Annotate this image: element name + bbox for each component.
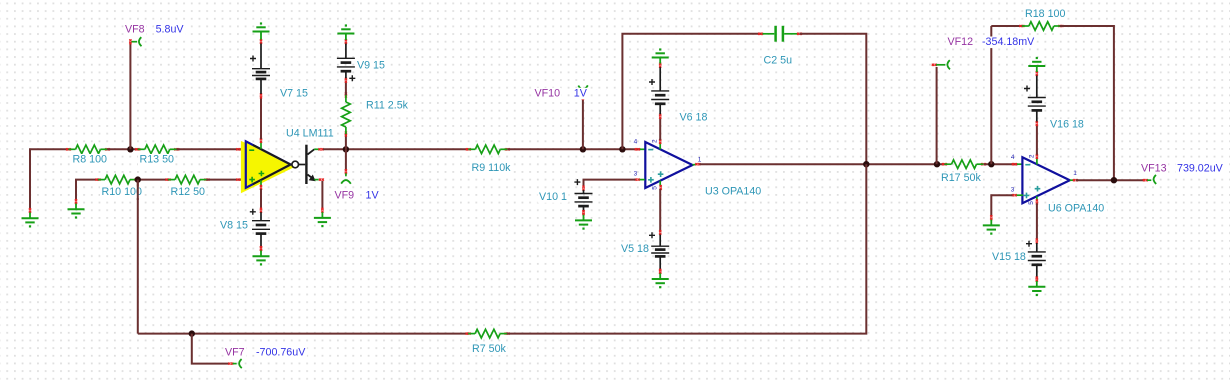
wire junction to R11 [345,133,347,149]
svg-text:U6 OPA140: U6 OPA140 [1048,202,1104,214]
wire U6 V- pin to V15 [1036,203,1038,240]
voltage pin VF9 [341,169,351,184]
svg-text:VF8: VF8 [125,24,145,36]
svg-text:R18 100: R18 100 [1025,8,1065,20]
wire input node to R8 and down to ground [30,149,69,208]
battery V6 [649,63,669,119]
voltage pin VF10 [578,85,588,100]
battery V10 [574,179,592,215]
wire U3 non-inverting input to V10 [635,179,637,181]
svg-text:VF9: VF9 [335,190,355,202]
svg-text:C2 5u: C2 5u [764,55,793,67]
wire R10 to R12 (feedback node) [136,179,169,181]
svg-text:R13 50: R13 50 [140,154,175,166]
wire feedback node down [137,180,139,334]
svg-text:1: 1 [698,157,702,164]
ground [652,269,669,289]
node C2 branch junction [619,146,625,152]
svg-text:U4 LM111: U4 LM111 [286,128,334,140]
wire feedback bottom right [507,164,866,333]
wire U6 V+ pin to V16 [1036,125,1038,155]
capacitor C2 [758,26,802,42]
op-amp U3 OPA140 [634,139,702,190]
node VF8 junction [127,146,133,152]
node VF7 junction [189,330,195,336]
svg-text:3: 3 [1011,187,1015,194]
svg-text:U3 OPA140: U3 OPA140 [705,185,761,197]
resistor R11 [342,93,351,137]
wire U4 emitter to ground [321,181,323,209]
wire U4 collector to R9 [323,148,468,150]
comparator U4 LM111 [241,138,324,194]
svg-text:R9 110k: R9 110k [472,162,512,174]
op-amp U6 OPA140 [1011,154,1078,205]
wire U6 output [1076,179,1144,181]
wire VF12 stub [936,67,938,164]
svg-text:5: 5 [651,186,658,190]
wire feedback bottom left [138,333,469,335]
resistor R12 [166,175,210,184]
wire R11 to V9 [345,81,347,95]
node feedback tie junction [863,161,869,167]
resistor R18 [1019,22,1063,31]
node VF10 junction [580,146,586,152]
voltage pin VF13 [1143,175,1156,184]
wire R12 to U4 non-inverting input [207,179,241,181]
wire R13 to U4 inverting input [177,148,241,150]
wire VF8 stub [129,42,131,149]
svg-text:1: 1 [1073,170,1077,177]
wire U4 V- pin to V8 [260,189,262,209]
resistor R7 [466,329,510,338]
wire VF7 stub [192,334,229,364]
svg-text:739.02uV: 739.02uV [1177,162,1224,174]
svg-text:R8 100: R8 100 [73,154,108,166]
svg-text:V7 15: V7 15 [280,87,308,99]
svg-text:R7 50k: R7 50k [472,343,507,355]
node R18 branch junction [988,161,994,167]
ground [337,24,354,40]
wire capacitor to output node [800,34,867,164]
svg-text:VF12: VF12 [948,36,974,48]
ground [22,208,39,228]
resistor R10 [96,175,140,184]
ground [1028,277,1045,297]
wire R18 branch up [990,26,992,164]
node U4 output junction [343,146,349,152]
wire U3 V- pin to V5 [659,189,661,232]
voltage pin VF12 [932,60,950,69]
wire U3 output to R17 [700,163,945,165]
ground [575,210,592,230]
battery V5 [649,230,669,274]
wire VF10 stub [582,99,584,150]
wire to R18 [991,25,1023,27]
ground [253,246,270,266]
ground [68,199,85,218]
svg-text:VF13: VF13 [1141,162,1167,174]
svg-text:-700.76uV: -700.76uV [256,347,306,359]
wire VF9 stub [345,149,347,171]
svg-text:V15 18: V15 18 [992,251,1026,263]
wire feedback node down (over label) [137,182,139,200]
voltage pin VF8 [129,37,141,46]
wire U6 non-inverting input to ground [1012,194,1014,196]
svg-text:VF7: VF7 [225,347,245,359]
svg-text:2: 2 [652,139,659,143]
ground [1028,57,1045,72]
svg-text:1V: 1V [574,88,588,100]
ground [314,208,331,228]
svg-text:2: 2 [1028,154,1035,158]
wire R18 to output riser [1060,26,1114,180]
wire R8 to R13 (node VF8) [107,148,138,150]
svg-text:R10 100: R10 100 [102,186,142,198]
node feedback junction [135,176,141,182]
svg-text:VF10: VF10 [535,88,561,100]
svg-text:V10 1: V10 1 [539,191,567,203]
svg-text:R17 50k: R17 50k [941,172,981,184]
ground [253,22,270,39]
svg-text:V5 18: V5 18 [621,243,649,255]
wire R17 to U6 inverting input [984,163,1018,165]
wire U3 V+ pin to V6 [659,118,661,141]
resistor R17 [942,160,986,169]
node VF12 junction [934,161,940,167]
svg-text:R11 2.5k: R11 2.5k [366,100,409,112]
resistor R9 [466,145,510,154]
resistor R8 [66,145,110,154]
svg-text:V6 18: V6 18 [680,111,708,123]
svg-text:4: 4 [1011,154,1015,161]
battery V15 [1026,239,1046,282]
svg-text:4: 4 [634,139,638,146]
svg-text:5: 5 [1028,201,1035,205]
battery V8 [250,208,270,251]
voltage pin VF7 [228,359,242,368]
svg-text:3: 3 [634,170,638,177]
wire U4 V+ pin to V7 [260,97,262,139]
ground [983,215,1000,235]
ground [652,48,669,63]
battery V16 [1024,71,1046,126]
svg-text:-354.18mV: -354.18mV [982,36,1035,48]
wire C2 branch up and to capacitor [622,34,761,150]
svg-text:R12 50: R12 50 [171,186,206,198]
svg-text:1V: 1V [366,190,380,202]
svg-text:V9 15: V9 15 [357,59,385,71]
wire ground to R10 [76,180,99,200]
resistor R13 [135,145,179,154]
svg-text:V8 15: V8 15 [220,220,248,232]
battery V9 [337,39,355,83]
wire R9 to U3 inverting input [507,148,640,150]
node R18 output junction [1111,177,1117,183]
svg-text:V16 18: V16 18 [1050,119,1084,131]
battery V7 [250,39,270,98]
svg-text:5.8uV: 5.8uV [156,24,185,36]
